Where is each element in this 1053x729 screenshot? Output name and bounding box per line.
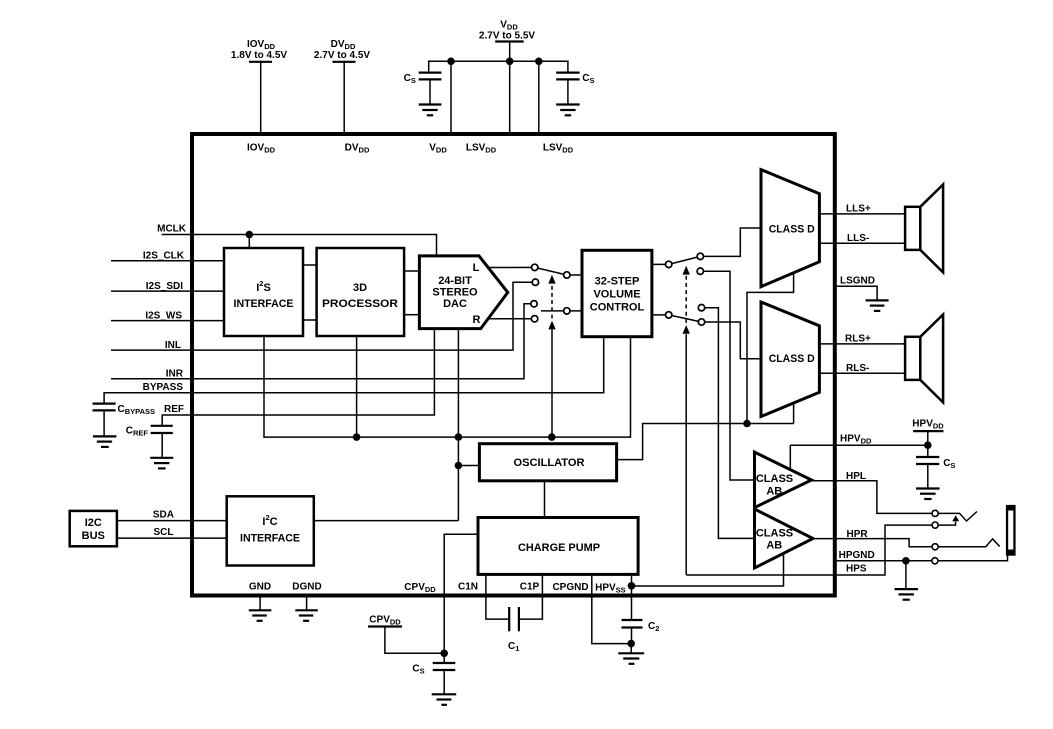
svg-text:HPS: HPS <box>846 564 867 575</box>
switch R contact DAC <box>531 316 537 322</box>
switch out contact L pole <box>666 261 672 267</box>
wire HPVDD stem <box>927 431 929 457</box>
svg-text:CHARGE PUMP: CHARGE PUMP <box>518 542 600 554</box>
jack contact sense <box>932 522 938 528</box>
block 3D PROCESSOR <box>317 248 405 336</box>
svg-text:LSGND: LSGND <box>840 276 875 287</box>
arrowhead right control lower <box>683 325 690 334</box>
switch out contact class D1 <box>697 253 703 259</box>
switch D1 lever <box>669 256 701 264</box>
wire I2S to 3D lower <box>303 319 317 321</box>
supply VDD label <box>479 20 535 42</box>
wire HPGND ground stem <box>905 561 907 589</box>
jack contact ring <box>932 544 938 550</box>
wire CPVDD ext stem <box>385 627 444 654</box>
wire to class D2 input <box>702 322 762 359</box>
svg-text:DAC: DAC <box>443 298 467 310</box>
ground CS CPVDD <box>432 694 457 705</box>
switch L pole contact <box>564 272 570 278</box>
ground DGND <box>295 610 318 621</box>
wire DVDD stem <box>343 62 345 133</box>
node bus junction control <box>548 433 556 441</box>
switch L contact DAC <box>532 264 538 270</box>
node HPGND junction <box>902 557 910 565</box>
arrowhead HPS sense <box>952 515 959 521</box>
node MCLK junction <box>246 231 254 239</box>
wire HPS sense <box>938 522 955 526</box>
ground LSGND <box>866 300 889 311</box>
ground CBYPASS <box>93 436 117 447</box>
supply VDD bar <box>495 40 524 42</box>
svg-text:PROCESSOR: PROCESSOR <box>322 298 398 310</box>
wire CPGND <box>592 574 631 643</box>
wire volume control R output <box>652 314 669 316</box>
wire to class D1 input <box>700 228 761 256</box>
wire RLS- <box>819 372 905 374</box>
switch out contact class D2 <box>698 319 704 325</box>
svg-text:CLASS: CLASS <box>756 473 793 485</box>
wire GND stem <box>259 595 261 610</box>
amplifier CLASS AB 1 <box>755 452 812 508</box>
svg-text:REF: REF <box>164 404 184 415</box>
wire left control dashed <box>551 285 553 319</box>
svg-text:32-STEP: 32-STEP <box>595 276 640 288</box>
svg-text:RLS+: RLS+ <box>845 334 871 345</box>
wire MCLK stub to I2S <box>248 235 250 249</box>
wire oscillator right to class D supply <box>617 424 794 460</box>
arrowhead left control upper <box>548 275 555 284</box>
svg-text:HPGND: HPGND <box>839 550 875 561</box>
svg-text:INTERFACE: INTERFACE <box>240 533 300 545</box>
block I2C BUS <box>70 511 117 546</box>
wire LLS- <box>819 242 905 244</box>
wire VDD pin drop <box>450 61 452 133</box>
capacitor CS left <box>404 73 442 105</box>
block 24-BIT STEREO DAC <box>419 256 507 329</box>
capacitor CS CPVDD <box>412 653 455 694</box>
svg-text:2.7V to 4.5V: 2.7V to 4.5V <box>314 50 370 61</box>
wire 3D drop to bus <box>356 336 358 437</box>
svg-text:R: R <box>473 314 481 326</box>
ground GND <box>249 610 271 621</box>
switch out contact R pole <box>666 312 672 318</box>
wire control bus <box>264 336 631 437</box>
switch out contact AB2 <box>698 305 704 311</box>
wire INR to left switch throw <box>111 304 531 379</box>
svg-text:C1N: C1N <box>458 582 478 593</box>
supply DVDD label <box>314 39 370 61</box>
svg-text:CPGND: CPGND <box>552 582 588 593</box>
ground C2 <box>618 653 644 664</box>
switch L lever <box>535 267 567 275</box>
node rail junction 3 <box>535 58 543 66</box>
block I2C INTERFACE <box>227 496 314 565</box>
svg-text:L: L <box>473 262 480 274</box>
node rail junction 1 <box>447 58 455 66</box>
jack tip spring <box>938 512 977 522</box>
svg-text:2.7V to 5.5V: 2.7V to 5.5V <box>479 31 535 42</box>
supply IOVDD bar <box>249 61 272 63</box>
wire LSGND <box>835 286 877 300</box>
switch L contact INL <box>532 279 538 285</box>
MAIN-IC-BOX <box>192 134 835 596</box>
svg-text:SCL: SCL <box>154 527 174 538</box>
switch out contact AB1 <box>697 268 703 274</box>
node bus junction 3D <box>353 433 361 441</box>
svg-text:OSCILLATOR: OSCILLATOR <box>514 457 585 469</box>
wire HPVSS <box>631 574 633 620</box>
wire AB2 bottom to HPVSS <box>632 553 784 586</box>
wire C1P <box>519 574 543 619</box>
amplifier CLASS D 1 <box>761 170 819 287</box>
svg-text:AB: AB <box>766 486 782 498</box>
capacitor C2 <box>622 620 660 644</box>
arrowhead left control lower <box>548 321 555 330</box>
switch R pole contact <box>564 308 570 314</box>
wire HPL <box>812 481 933 514</box>
wire I2S_CLK <box>111 260 224 262</box>
wire right control dashed <box>685 275 687 323</box>
jack contact tip <box>932 510 938 516</box>
svg-text:STEREO: STEREO <box>432 287 478 299</box>
block I2S INTERFACE <box>224 248 303 336</box>
wire left control riser <box>551 329 553 438</box>
speaker right <box>905 315 943 403</box>
svg-text:3D: 3D <box>353 282 367 294</box>
wire VDD stem <box>509 42 511 134</box>
wire SDA <box>117 520 227 522</box>
speaker left <box>905 185 943 273</box>
wire HPVDD to AB1 <box>789 445 791 469</box>
wire INL to left switch throw <box>111 282 532 350</box>
svg-text:AB: AB <box>766 539 782 551</box>
wire class D1 bottom <box>747 273 794 424</box>
block 32-STEP VOLUME CONTROL <box>582 250 652 336</box>
svg-text:I2C: I2C <box>85 517 102 529</box>
wire right control riser <box>685 334 687 575</box>
svg-text:CLASS: CLASS <box>756 528 793 540</box>
supply CPVDD bar <box>368 625 402 627</box>
supply IOVDD label <box>231 39 287 61</box>
wire BYPASS to volume control <box>104 337 604 404</box>
svg-text:SDA: SDA <box>153 510 174 521</box>
svg-text:MCLK: MCLK <box>157 224 187 235</box>
wire SCL <box>117 537 227 539</box>
wire I2S_WS <box>111 320 224 322</box>
wire L pole to volume control <box>567 274 582 276</box>
wire IOVDD stem <box>260 62 262 133</box>
node oscillator junction <box>455 462 463 470</box>
svg-text:VOLUME: VOLUME <box>593 289 640 301</box>
svg-text:I2S: I2S <box>256 279 271 294</box>
wire DAC R output <box>488 318 535 320</box>
node HPVDD junction <box>924 441 932 449</box>
amplifier CLASS AB 2 <box>755 509 814 568</box>
supply DVDD bar <box>333 61 356 63</box>
svg-text:CLASS D: CLASS D <box>769 353 815 365</box>
wire RLS+ <box>819 343 905 345</box>
wire HPS net <box>686 525 932 575</box>
wire oscillator to charge pump <box>544 481 546 518</box>
wire volume control L output <box>652 263 669 265</box>
headphone plug body <box>1006 505 1016 556</box>
wire throw to class AB1 <box>700 271 754 480</box>
node class D supply junction <box>743 420 751 428</box>
wire 3D to DAC lower <box>404 314 419 316</box>
switch R lever and pole wire <box>541 310 582 312</box>
node C2 junction <box>627 640 635 648</box>
capacitor CBYPASS <box>93 404 156 437</box>
svg-text:INTERFACE: INTERFACE <box>234 298 294 310</box>
svg-text:I2C: I2C <box>262 513 277 528</box>
wire CPVDD <box>444 534 478 653</box>
svg-text:RLS-: RLS- <box>846 363 869 374</box>
svg-text:CONTROL: CONTROL <box>590 302 645 314</box>
wire C2 ground stem <box>630 644 632 654</box>
block OSCILLATOR <box>479 444 616 481</box>
wire LSVDD2 pin drop <box>538 61 540 133</box>
wire DAC L output <box>488 266 535 268</box>
ground HPGND <box>895 589 919 600</box>
wire HPVDD pin <box>790 444 928 446</box>
wire MCLK <box>162 235 437 256</box>
node bus junction DAC <box>455 433 463 441</box>
ground CREF <box>150 458 173 469</box>
wire VDD top rail <box>429 61 568 72</box>
wire HPGND <box>835 555 1008 561</box>
node rail junction 2 <box>506 58 514 66</box>
jack contact sleeve <box>932 558 938 564</box>
node HPVSS junction <box>628 582 636 590</box>
ground CS left <box>419 105 442 116</box>
capacitor CREF <box>126 425 173 458</box>
amplifier CLASS D 2 <box>761 302 819 417</box>
wire throw to class AB2 <box>702 308 755 539</box>
wire DAC drop to I2C net <box>457 329 459 521</box>
svg-text:GND: GND <box>249 582 271 593</box>
wire DGND stem <box>306 595 308 610</box>
switch D2 lever <box>669 315 702 322</box>
wire I2C interface output <box>314 520 459 522</box>
capacitor CS HPVDD <box>916 457 955 489</box>
svg-text:24-BIT: 24-BIT <box>438 275 472 287</box>
ground CS HPVDD <box>916 489 940 500</box>
wire C1N <box>486 574 509 619</box>
jack ring spring <box>938 539 1000 547</box>
svg-text:LLS-: LLS- <box>847 233 869 244</box>
switch R contact INR <box>531 301 537 307</box>
svg-text:BUS: BUS <box>82 530 105 542</box>
block CHARGE PUMP <box>478 518 638 575</box>
supply HPVDD bar <box>913 430 943 432</box>
capacitor CS right <box>556 73 594 105</box>
capacitor C1 <box>508 607 519 653</box>
svg-text:CLASS D: CLASS D <box>769 224 815 236</box>
wire REF to DAC <box>162 329 434 426</box>
svg-text:BYPASS: BYPASS <box>143 382 184 393</box>
wire 3D to DAC upper <box>404 270 419 272</box>
wire HPR <box>813 539 932 547</box>
svg-text:LLS+: LLS+ <box>846 204 871 215</box>
arrowhead right control upper <box>683 266 690 275</box>
svg-text:DGND: DGND <box>292 582 321 593</box>
wire I2S to 3D upper <box>303 264 317 266</box>
wire LLS+ <box>819 213 905 215</box>
wire class D2 bottom <box>793 403 795 424</box>
wire oscillator left <box>458 465 479 467</box>
svg-text:1.8V to 4.5V: 1.8V to 4.5V <box>231 50 287 61</box>
svg-text:C1P: C1P <box>520 582 540 593</box>
wire I2S_SDI <box>111 290 224 292</box>
node CPVDD junction <box>440 650 448 658</box>
ground CS right <box>556 105 579 116</box>
